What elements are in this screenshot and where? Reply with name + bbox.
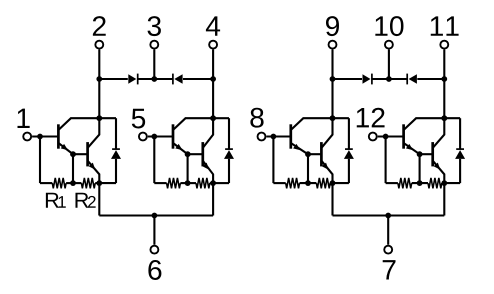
junction pin 4 / top bus (210, 76, 216, 82)
wire Q5 emitter to Q6 base (308, 153, 321, 155)
node Q5 emitter / Q6 base (305, 151, 311, 157)
pin 8 terminal (258, 133, 266, 141)
wire emitter node down to bottom bus (443, 183, 445, 215)
wire rail segment to emitter node (330, 182, 332, 184)
node Q1 emitter / Q2 base (70, 151, 76, 157)
pin 1 label (18, 109, 30, 128)
wire pin 6 stub (153, 216, 155, 245)
wire pin 2 down to collector node (98, 79, 100, 118)
wire pin 2 to top bus (98, 50, 100, 80)
pin 10 label (375, 16, 403, 36)
wire pin 9 to top bus (331, 50, 333, 80)
wire emitter node down to bottom bus (98, 183, 100, 215)
junction pin 8 input node (271, 134, 277, 140)
wire input node down to rail (153, 137, 155, 184)
wire input node down to rail (39, 137, 41, 184)
diode D1 (111, 150, 121, 159)
junction Q3 emitter leg / rail (185, 180, 191, 186)
pin 7 terminal (384, 246, 392, 254)
wire rail segment to emitter node (210, 182, 213, 184)
wire pin 11 to top bus (443, 50, 445, 80)
pin 9 terminal (329, 41, 337, 49)
wire pin 10 to top bus (388, 50, 390, 80)
junction pin 11 / top bus (441, 76, 447, 82)
resistor R4 (196, 178, 210, 188)
label R2 value (75, 193, 88, 208)
wire rail left segment (154, 182, 166, 184)
diode D8 (409, 74, 417, 83)
wire rail left segment (273, 182, 285, 184)
wire bottom bus left half (99, 214, 213, 216)
node collector A (96, 115, 102, 121)
pin 6 terminal (150, 246, 158, 254)
wire input node down to rail (385, 137, 387, 184)
pin 4 label (206, 16, 220, 35)
wire rail segment R1 to junction (66, 182, 81, 184)
junction emitter node cell B (210, 180, 216, 186)
pin 8 label (250, 108, 263, 128)
diode D7 (363, 74, 371, 83)
pin 2 label (93, 16, 106, 36)
pin 11 terminal (440, 41, 448, 49)
node collector C (330, 115, 336, 121)
transistor Q8 (431, 142, 434, 166)
pin 9 label (326, 16, 339, 36)
wire rail to diode D4 anode (444, 182, 460, 184)
wire Q5 emitter node down to rail (307, 154, 309, 183)
transistor Q4 (201, 142, 204, 166)
diode D2 (224, 150, 234, 159)
wire diode D1 cathode to collector node (115, 118, 117, 149)
transistor Q6 (320, 142, 323, 166)
wire pin 4 to top bus (212, 50, 214, 80)
wire rail segment to emitter node (442, 182, 445, 184)
transistor Q1 (57, 124, 60, 148)
junction Q1 emitter leg / rail (70, 180, 76, 186)
pin 1 terminal (23, 133, 31, 141)
pin 11 label (431, 16, 459, 35)
transistor Q7 (402, 124, 405, 148)
wire rail segment to emitter node (95, 182, 99, 184)
diode D4 (455, 150, 465, 159)
wire pin 12 to base of Q7 (378, 135, 404, 137)
wire diode D4 cathode to collector node (459, 118, 461, 149)
junction pin 6 / bottom bus (152, 213, 158, 219)
wire rail to diode D1 anode (99, 182, 116, 184)
junction emitter node cell D (441, 180, 447, 186)
pin 10 terminal (385, 41, 393, 49)
wire emitter node down to bottom bus (212, 183, 214, 215)
junction pin 5 input node (151, 134, 157, 140)
transistor Q5 (289, 124, 292, 148)
node collector B (210, 115, 216, 121)
wire rail segment R5 to junction (300, 182, 317, 184)
wire rail segment R7 to junction (412, 182, 428, 184)
junction pin 7 / bottom bus (385, 213, 391, 219)
pin 3 label (148, 16, 161, 36)
junction pin 10 / top bus (386, 76, 392, 82)
label R1 value (46, 193, 59, 208)
pin 7 label (383, 260, 396, 279)
wire bottom bus right half (333, 214, 445, 216)
wire rail left segment (40, 182, 52, 184)
transistor Q2 (86, 142, 89, 166)
wire diode D2 cathode to collector node (228, 118, 230, 149)
wire Q7 emitter node down to rail (419, 154, 421, 183)
node Q7 emitter / Q8 base (417, 151, 423, 157)
junction Q5 emitter leg / rail (305, 180, 311, 186)
wire rail to diode D2 anode (213, 182, 229, 184)
wire pin 9 down to collector node (331, 79, 333, 118)
junction pin 3 / top bus (151, 76, 157, 82)
pin 4 terminal (209, 41, 217, 49)
junction pin 9 / top bus (330, 76, 336, 82)
transistor Q3 (172, 124, 175, 148)
wire Q1 emitter node down to rail (72, 154, 74, 183)
node collector D (441, 115, 447, 121)
junction pin 2 / top bus (96, 76, 102, 82)
wire pin 11 down to collector node (443, 79, 445, 118)
node Q3 emitter / Q4 base (185, 151, 191, 157)
pin 6 label (148, 260, 161, 280)
pin 5 label (132, 109, 145, 129)
wire pin 5 to base of Q3 (148, 135, 173, 137)
junction Q7 emitter leg / rail (417, 180, 423, 186)
resistor R7 (398, 178, 412, 188)
wire rail left segment (386, 182, 398, 184)
wire rail segment R3 to junction (180, 182, 196, 184)
wire Q3 emitter to Q4 base (188, 153, 203, 155)
diode D6 (174, 74, 182, 83)
wire pin 8 to base of Q5 (266, 135, 290, 137)
resistor R6 (316, 178, 330, 188)
wire rail to diode D3 anode (333, 182, 349, 184)
wire pin 4 down to collector node (212, 79, 214, 118)
wire emitter node down to bottom bus (331, 183, 333, 215)
wire Q3 emitter node down to rail (187, 154, 189, 183)
wire pin 3 to top bus (153, 50, 155, 80)
pin 12 label (357, 108, 385, 128)
wire pin 1 to base of Q1 (32, 135, 58, 137)
wire Q1 emitter to Q2 base (73, 153, 88, 155)
junction pin 12 input node (383, 134, 389, 140)
wire top bus right half (333, 78, 363, 80)
diode D5 (128, 74, 136, 83)
resistor R8 (428, 178, 442, 188)
wire Q7 emitter to Q8 base (420, 153, 433, 155)
wire top bus left half (99, 78, 128, 80)
wire diode D3 cathode to collector node (348, 118, 350, 149)
diode D3 (344, 150, 354, 159)
pin 2 terminal (95, 41, 103, 49)
junction emitter node cell C (330, 180, 336, 186)
pin 3 terminal (150, 41, 158, 49)
pin 12 terminal (369, 133, 377, 141)
resistor R1 (52, 178, 66, 188)
junction pin 1 input node (37, 134, 43, 140)
resistor R3 (167, 178, 181, 188)
pin 5 terminal (139, 133, 147, 141)
resistor R2 (81, 178, 95, 188)
wire pin 7 stub (387, 216, 389, 245)
junction emitter node cell A (96, 180, 102, 186)
wire input node down to rail (272, 137, 274, 184)
resistor R5 (286, 178, 300, 188)
